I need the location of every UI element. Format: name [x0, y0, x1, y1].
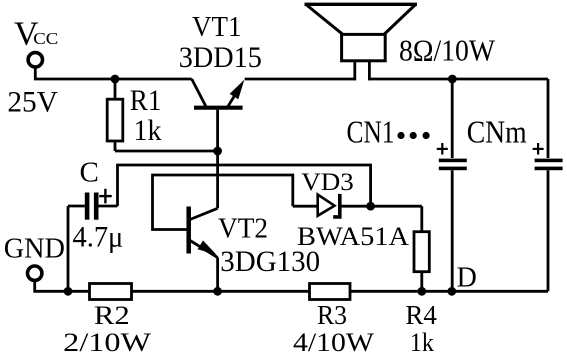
- svg-text:R1: R1: [130, 85, 162, 117]
- svg-text:8Ω/10W: 8Ω/10W: [399, 33, 496, 68]
- svg-text:VT1: VT1: [192, 12, 242, 43]
- svg-text:CNm: CNm: [467, 113, 527, 149]
- svg-text:4/10W: 4/10W: [293, 327, 374, 357]
- svg-text:R2: R2: [94, 301, 130, 330]
- svg-text:R4: R4: [405, 299, 437, 330]
- svg-text:VT2: VT2: [218, 214, 268, 245]
- svg-text:1k: 1k: [410, 327, 435, 357]
- svg-text:VD3: VD3: [301, 169, 354, 196]
- svg-text:GND: GND: [4, 233, 65, 265]
- svg-text:BWA51A: BWA51A: [297, 221, 410, 251]
- svg-text:25V: 25V: [7, 87, 58, 119]
- svg-text:3DD15: 3DD15: [179, 42, 262, 74]
- svg-text:D: D: [457, 263, 477, 294]
- svg-text:2/10W: 2/10W: [63, 327, 151, 357]
- svg-text:R3: R3: [317, 299, 347, 330]
- svg-text:C: C: [80, 156, 99, 188]
- svg-text:CN1: CN1: [347, 113, 395, 149]
- svg-text:CC: CC: [33, 29, 58, 48]
- svg-text:1k: 1k: [134, 115, 162, 147]
- svg-text:4.7μ: 4.7μ: [73, 221, 124, 253]
